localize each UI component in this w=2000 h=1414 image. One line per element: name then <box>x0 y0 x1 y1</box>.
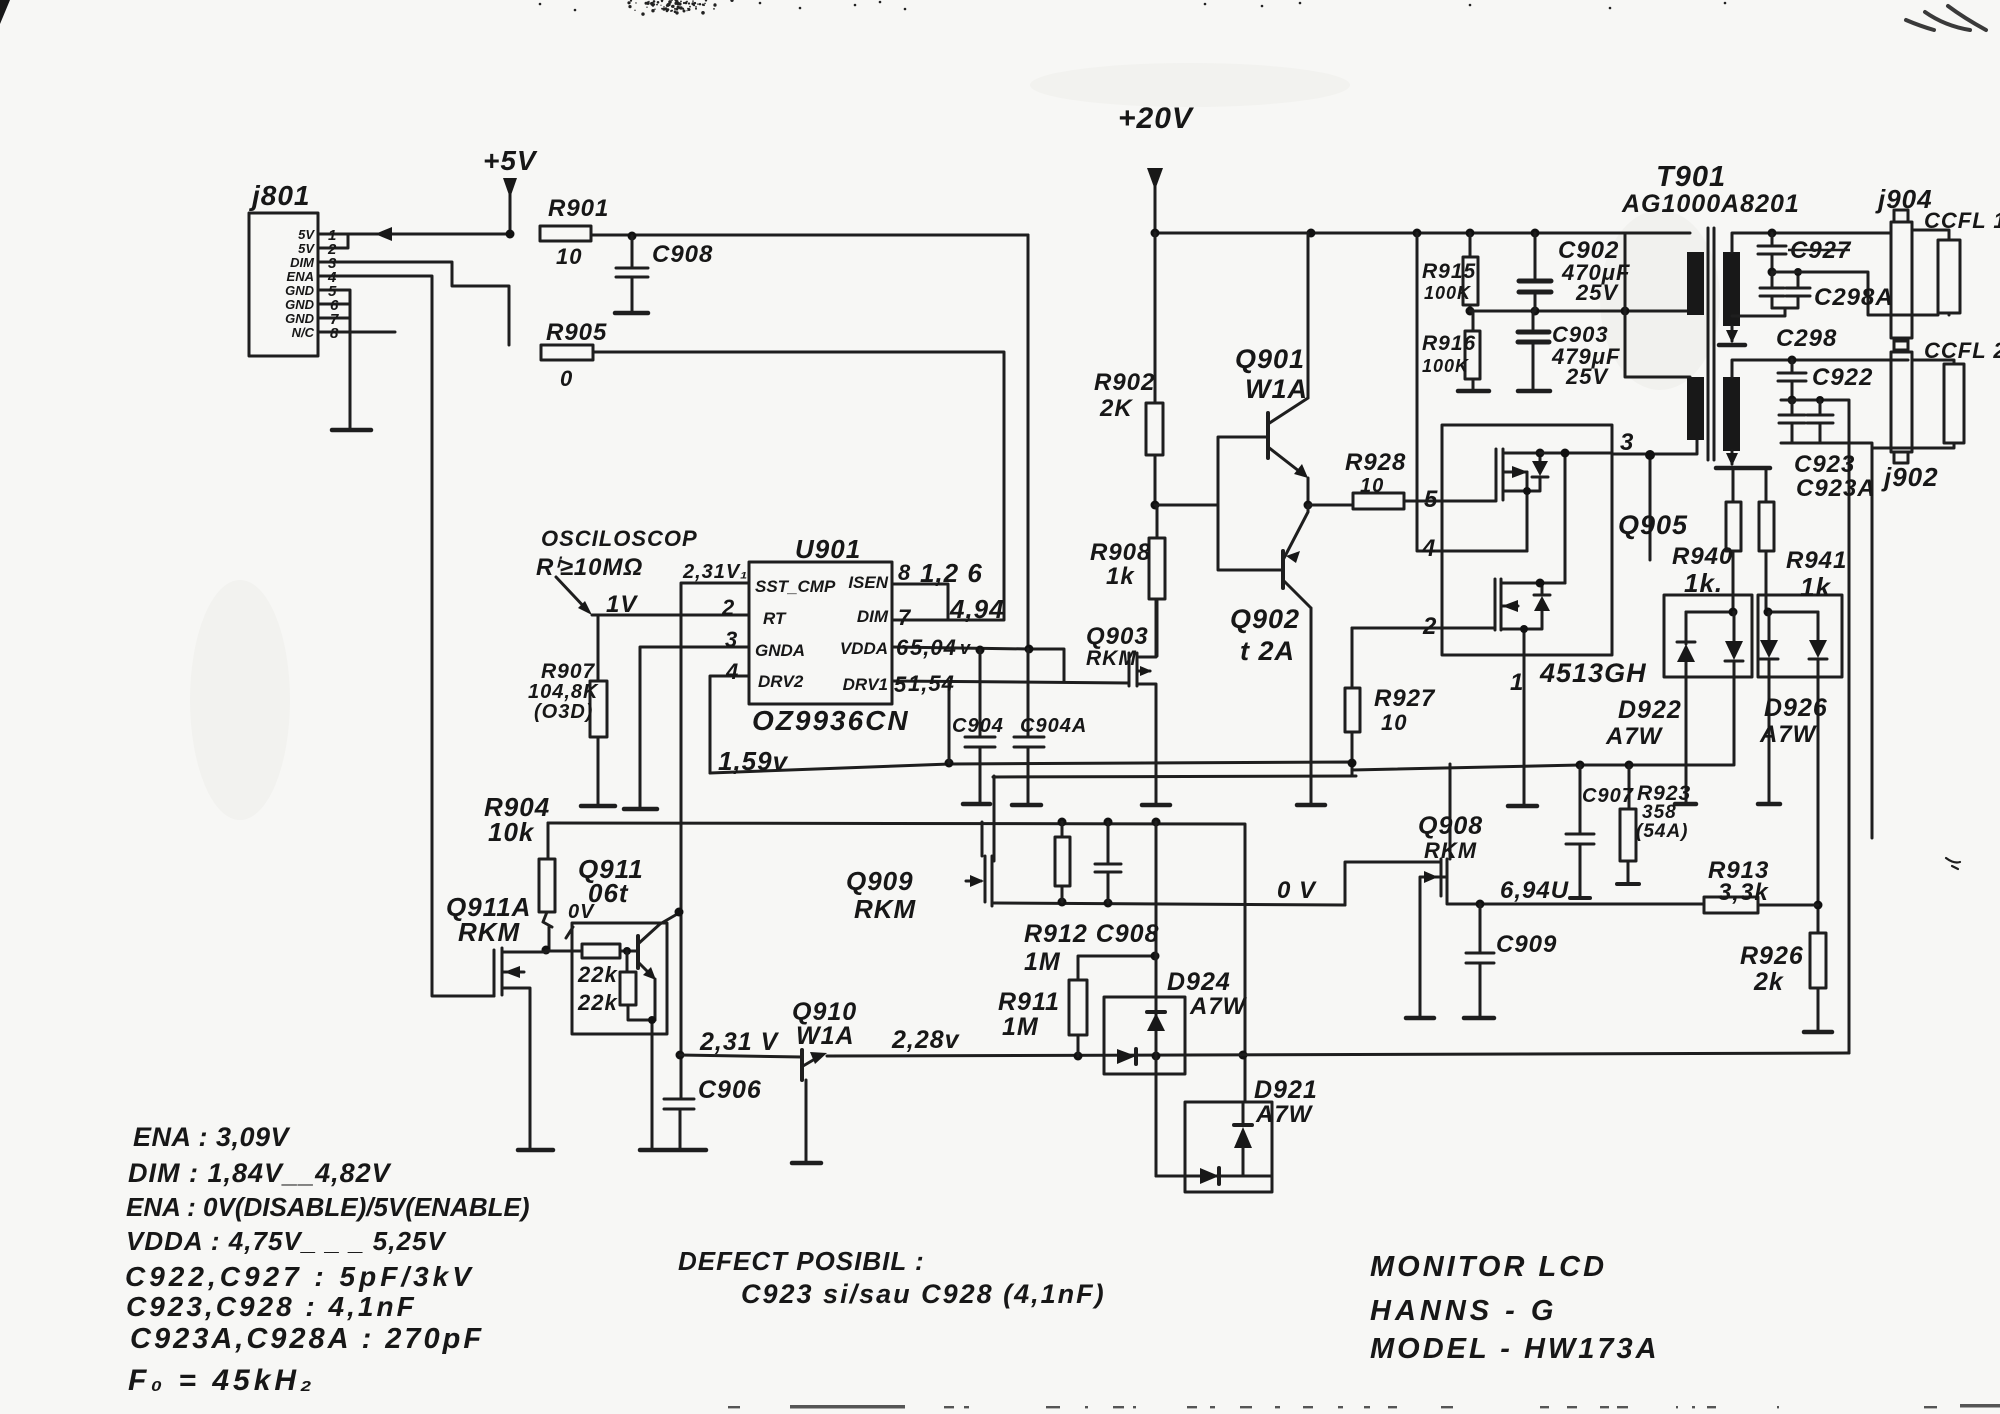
wire primary left link <box>1625 233 1690 377</box>
svg-text:ENA: ENA <box>287 269 314 284</box>
ground pin1 <box>1508 804 1537 809</box>
svg-text:D924: D924 <box>1167 968 1231 996</box>
wire 0V net <box>995 903 1345 905</box>
diode pack D926 <box>1758 595 1842 677</box>
ground J801 <box>332 428 371 433</box>
capacitor C928A <box>1732 272 1810 316</box>
svg-text:RKM: RKM <box>854 894 917 924</box>
node Q905 pin numbers <box>1421 429 1634 696</box>
scan artifact right edge marks <box>1946 858 1960 869</box>
resistor R908 <box>1156 505 1159 538</box>
wire pin3 to transformer <box>1612 440 1697 560</box>
wire centre tap net <box>1470 310 1688 313</box>
ground Q902 <box>1297 803 1325 808</box>
node oscilloscope arrow <box>556 577 588 611</box>
node +5V junction <box>506 230 515 239</box>
svg-text:5,04: 5,04 <box>910 635 957 660</box>
transistor Q905a upper MOSFET <box>1496 449 1540 551</box>
wire R905 to U901 pin7 <box>593 352 1004 620</box>
wire base link <box>1155 437 1283 570</box>
svg-text:1k: 1k <box>1800 572 1831 602</box>
svg-text:104,8K: 104,8K <box>528 681 599 703</box>
wire DRV2 pin4 <box>710 676 749 773</box>
svg-text:R927: R927 <box>1374 685 1436 712</box>
svg-text:25V: 25V <box>1565 364 1609 389</box>
resistor R940 <box>1732 468 1735 502</box>
resistor R902 <box>1154 233 1157 403</box>
transformer T901 secondary 2 <box>1723 377 1740 451</box>
svg-text:1k.: 1k. <box>1684 568 1723 598</box>
svg-text:DEFECT POSIBIL :: DEFECT POSIBIL : <box>678 1246 925 1276</box>
svg-text:10: 10 <box>1381 710 1407 735</box>
svg-text:1,59v: 1,59v <box>718 746 789 776</box>
scan artifact bottom dotted line <box>728 1404 2000 1409</box>
node DRV junctions <box>945 759 954 768</box>
svg-text:Q901: Q901 <box>1235 344 1305 374</box>
svg-text:2: 2 <box>721 595 735 620</box>
svg-text:SST_CMP: SST_CMP <box>755 577 836 596</box>
transistor Q911A <box>494 948 546 1148</box>
lamp CCFL1 <box>1938 240 1960 313</box>
resistor R904 <box>547 823 550 859</box>
svg-text:C906: C906 <box>698 1076 762 1104</box>
capacitor C902 <box>1534 233 1537 278</box>
svg-text:RKM: RKM <box>458 917 521 947</box>
ground C908 <box>615 311 648 316</box>
svg-text:C923: C923 <box>1794 451 1855 478</box>
wire ENA pin4 <box>318 276 494 996</box>
svg-text:C298: C298 <box>1776 325 1837 352</box>
svg-text:j801: j801 <box>248 180 311 211</box>
svg-text:DRV2: DRV2 <box>758 672 804 691</box>
transistor Q901 <box>1266 413 1270 458</box>
wire lamp2 return <box>1781 443 1872 838</box>
svg-text:MONITOR LCD: MONITOR LCD <box>1370 1251 1607 1283</box>
diode pack D922 <box>1664 595 1752 677</box>
transistor Q905b lower MOSFET <box>1495 579 1540 655</box>
svg-text:3: 3 <box>1620 429 1634 456</box>
svg-text:C922: C922 <box>1812 364 1873 391</box>
wire 2,31V to Q910 <box>680 1055 802 1057</box>
svg-text:D922: D922 <box>1618 696 1682 724</box>
resistor R915 <box>1469 233 1472 257</box>
capacitor C908b <box>1095 822 1121 903</box>
svg-text:D926: D926 <box>1764 694 1828 722</box>
wire D921 input <box>1156 1175 1272 1178</box>
svg-text:2K: 2K <box>1099 395 1133 422</box>
wire pin1 to ground <box>1523 655 1526 805</box>
wire drain node to pin3 <box>1540 453 1612 583</box>
scan artifact faint blobs <box>1030 63 1350 107</box>
ground Q903 <box>1142 803 1170 808</box>
resistor R916 <box>1472 311 1475 331</box>
svg-text:0: 0 <box>560 366 573 391</box>
svg-text:2,31 V: 2,31 V <box>699 1028 780 1056</box>
capacitor C923 <box>1779 400 1805 443</box>
svg-text:R905: R905 <box>546 319 607 346</box>
svg-text:R911: R911 <box>998 988 1060 1016</box>
svg-text:1k: 1k <box>1106 563 1135 590</box>
svg-text:1,54: 1,54 <box>908 671 955 696</box>
resistor 22k horizontal <box>546 950 582 953</box>
svg-text:R912 C908: R912 C908 <box>1024 920 1159 948</box>
svg-text:22k: 22k <box>577 962 618 987</box>
svg-text:2,28v: 2,28v <box>891 1026 961 1054</box>
node R927 bus <box>1348 759 1357 768</box>
transformer T901 primary 1 <box>1687 252 1704 315</box>
wire to R928 <box>1308 504 1353 507</box>
wire VDDA pin6 <box>892 647 1064 682</box>
svg-text:RKM: RKM <box>1424 838 1477 863</box>
svg-text:1: 1 <box>1510 669 1523 696</box>
wire primary top lead <box>1625 232 1690 235</box>
transistor Q908 <box>1345 764 1480 1018</box>
scan artifact top speckles <box>539 0 1727 16</box>
node Q911 collector junction <box>675 908 684 917</box>
diode D922 left <box>1677 612 1695 802</box>
node arrow into J801 <box>375 227 392 241</box>
svg-text:R940: R940 <box>1672 543 1733 570</box>
svg-text:7: 7 <box>898 605 912 630</box>
wire DRV net lower <box>993 776 1356 777</box>
node U901 pin numbers <box>721 560 912 697</box>
transistor Q910 <box>800 1050 804 1080</box>
wire pin2 <box>1352 627 1495 630</box>
svg-text:5: 5 <box>894 672 907 697</box>
svg-text:6,94U: 6,94U <box>1500 877 1569 904</box>
svg-text:HANNS - G: HANNS - G <box>1370 1295 1557 1327</box>
svg-text:CCFL 1: CCFL 1 <box>1924 208 2000 233</box>
svg-text:DIM : 1,84V__4,82V: DIM : 1,84V__4,82V <box>128 1158 392 1188</box>
svg-text:5: 5 <box>1424 486 1438 513</box>
transistor Q902 <box>1281 551 1285 588</box>
svg-text:DIM: DIM <box>290 255 315 270</box>
svg-text:R916: R916 <box>1422 332 1476 355</box>
svg-text:ENA : 0V(DISABLE)/5V(ENABLE): ENA : 0V(DISABLE)/5V(ENABLE) <box>126 1192 530 1222</box>
capacitor C907 <box>1566 765 1594 896</box>
capacitor C928 <box>1760 272 1784 308</box>
svg-text:100K: 100K <box>1422 356 1470 376</box>
svg-text:CCFL 2: CCFL 2 <box>1924 338 2000 363</box>
scan artifact top-right smudge <box>1906 6 1986 30</box>
svg-text:AG1000A8201: AG1000A8201 <box>1621 190 1800 218</box>
wire 5V to +5V rail <box>348 233 510 236</box>
svg-text:RKM: RKM <box>1086 647 1137 670</box>
svg-text:GNDA: GNDA <box>755 641 805 660</box>
svg-text:358: 358 <box>1642 802 1677 823</box>
resistor R905 <box>541 345 593 360</box>
wire lamp1 top <box>1912 230 1949 240</box>
svg-text:T901: T901 <box>1656 161 1726 193</box>
svg-text:1M: 1M <box>1002 1013 1039 1041</box>
svg-text:0 V: 0 V <box>1277 877 1317 904</box>
wire 6,94V net <box>1480 903 1704 906</box>
svg-text:100K: 100K <box>1424 283 1472 303</box>
svg-text:4513GH: 4513GH <box>1539 658 1647 688</box>
wire lamp1 return <box>1772 272 1938 315</box>
module Q905 4513GH box <box>1442 425 1612 655</box>
svg-text:C907: C907 <box>1582 785 1634 807</box>
diode D921 horizontal <box>1200 1168 1219 1184</box>
wire R901 to VDDA <box>1027 235 1030 649</box>
resistor 22k vertical <box>626 951 629 972</box>
diode D924 horizontal <box>1117 1049 1136 1064</box>
node J801 pin numbers <box>327 227 339 342</box>
module Q911 block <box>572 923 667 1034</box>
svg-text:8: 8 <box>898 560 911 585</box>
svg-text:A7W: A7W <box>1255 1101 1314 1128</box>
svg-text:C298A: C298A <box>1814 284 1894 311</box>
wire D924 column <box>1155 822 1158 1176</box>
IC U901 <box>749 562 892 704</box>
node C908 top <box>628 232 637 241</box>
capacitor C922 <box>1778 360 1806 400</box>
svg-text:A7W: A7W <box>1189 993 1248 1020</box>
svg-text:22k: 22k <box>577 990 618 1015</box>
capacitor C909 <box>1466 904 1494 1018</box>
svg-text:R928: R928 <box>1345 449 1406 476</box>
wire pin4 supply <box>1417 233 1527 551</box>
wire 1,59V net <box>710 762 1733 775</box>
ground secondary2 <box>1716 466 1770 471</box>
ground C906 <box>640 1148 706 1153</box>
diode D921 vertical <box>1234 1123 1252 1127</box>
diode Q905a body <box>1527 453 1548 491</box>
svg-text:C904: C904 <box>952 715 1004 737</box>
svg-text:2k: 2k <box>1753 968 1784 996</box>
svg-text:v: v <box>960 638 971 658</box>
resistor R923 <box>1628 765 1631 809</box>
svg-text:(54A): (54A) <box>1636 821 1689 842</box>
diode pack D924 <box>1104 997 1185 1074</box>
resistor R912 <box>1061 822 1064 837</box>
svg-text:1V: 1V <box>606 591 638 618</box>
wire DRV1 pin5 <box>892 681 1129 763</box>
svg-text:+5V: +5V <box>483 145 538 176</box>
svg-text:MODEL - HW173A: MODEL - HW173A <box>1370 1333 1660 1365</box>
transistor Q903 <box>1129 599 1156 805</box>
svg-text:GND: GND <box>285 283 315 298</box>
node R902 bottom <box>1151 501 1160 510</box>
svg-text:6: 6 <box>896 635 909 660</box>
svg-text:1,2 6: 1,2 6 <box>920 558 983 588</box>
svg-text:W1A: W1A <box>796 1022 855 1050</box>
wire lamp2 top <box>1912 360 1954 364</box>
svg-text:(O3D): (O3D) <box>534 701 593 723</box>
svg-text:0V: 0V <box>568 901 595 923</box>
wire +20V bus <box>1155 232 1625 235</box>
diode D922 right <box>1725 612 1743 765</box>
resistor R901 <box>540 226 591 241</box>
svg-text:R901: R901 <box>548 195 609 222</box>
ground Q911A <box>518 1148 553 1153</box>
svg-text:ISEN: ISEN <box>848 573 888 592</box>
node 2,31V junction <box>676 1051 685 1060</box>
wire GND pins 5-7 <box>318 290 350 428</box>
wire secondary1 top <box>1732 233 1891 252</box>
svg-text:R907: R907 <box>541 660 596 683</box>
svg-text:3: 3 <box>725 627 737 652</box>
resistor R913 <box>1704 897 1758 913</box>
capacitor C923A <box>1807 400 1833 443</box>
svg-text:Q909: Q909 <box>846 866 914 896</box>
svg-text:Rⁱ≥10MΩ: Rⁱ≥10MΩ <box>536 554 643 581</box>
svg-text:Q902: Q902 <box>1230 604 1300 634</box>
svg-text:C908: C908 <box>652 241 713 268</box>
svg-text:F₀ = 45kH₂: F₀ = 45kH₂ <box>128 1364 316 1397</box>
connector J904 <box>1891 222 1912 338</box>
wire DIM pin3 <box>318 262 509 345</box>
node U901 pin names <box>755 573 889 694</box>
svg-text:j902: j902 <box>1881 462 1939 492</box>
diode pack D921 <box>1185 1102 1272 1192</box>
resistor R926 <box>1810 933 1826 988</box>
capacitor C904 <box>965 650 995 804</box>
svg-text:RT: RT <box>763 609 787 628</box>
wire lamp2 bottom <box>1872 443 1954 448</box>
lamp CCFL2 <box>1944 364 1964 443</box>
capacitor C903 <box>1532 311 1535 329</box>
ground C903 <box>1518 389 1550 394</box>
svg-text:C923,C928 : 4,1nF: C923,C928 : 4,1nF <box>126 1291 417 1322</box>
node VDDA junctions <box>976 646 985 655</box>
svg-text:R915: R915 <box>1422 260 1476 283</box>
wire SST_CMP <box>681 583 749 1099</box>
ground GNDA <box>624 807 657 812</box>
svg-text:C923 si/sau C928 (4,1nF): C923 si/sau C928 (4,1nF) <box>741 1279 1106 1309</box>
svg-text:R941: R941 <box>1786 547 1847 574</box>
svg-text:Q903: Q903 <box>1086 623 1149 650</box>
svg-text:A7W: A7W <box>1759 721 1818 748</box>
resistor R927 <box>1351 628 1354 688</box>
svg-text:1M: 1M <box>1024 948 1061 976</box>
ground C904A <box>1012 803 1041 808</box>
power +5V <box>509 180 512 234</box>
svg-text:10k: 10k <box>488 817 535 847</box>
svg-text:C923A,C928A : 270pF: C923A,C928A : 270pF <box>130 1323 484 1355</box>
svg-text:+20V: +20V <box>1118 102 1195 135</box>
svg-text:C922,C927 : 5pF/3kV: C922,C927 : 5pF/3kV <box>125 1261 475 1292</box>
svg-text:C909: C909 <box>1496 931 1557 958</box>
wire 2,28V net bottom bus <box>827 1053 1849 1056</box>
svg-text:OZ9936CN: OZ9936CN <box>752 705 910 736</box>
svg-text:GND: GND <box>285 311 315 326</box>
svg-text:VDDA : 4,75V_ _ _ 5,25V: VDDA : 4,75V_ _ _ 5,25V <box>126 1226 447 1256</box>
svg-text:4: 4 <box>725 659 738 684</box>
transformer T901 secondary 1 <box>1723 252 1740 326</box>
wire secondary2 bottom return <box>1731 451 1734 464</box>
svg-text:8: 8 <box>330 325 339 342</box>
scan artifact top-left corner <box>0 0 10 24</box>
svg-text:5V: 5V <box>298 227 315 242</box>
svg-text:U901: U901 <box>795 534 861 564</box>
svg-text:5V: 5V <box>298 241 315 256</box>
wire R901 output <box>591 234 1028 237</box>
diode Q905b body <box>1524 583 1565 629</box>
wire lamp1 bottom <box>1948 313 1951 315</box>
svg-text:25V: 25V <box>1575 280 1619 305</box>
diode D926 left <box>1760 612 1778 802</box>
svg-text:Q908: Q908 <box>1418 812 1483 840</box>
svg-text:10: 10 <box>556 244 582 269</box>
svg-text:DIM: DIM <box>857 607 889 626</box>
svg-text:4,94: 4,94 <box>949 594 1005 624</box>
svg-text:R902: R902 <box>1094 369 1155 396</box>
connector J801 <box>249 213 318 356</box>
svg-text:10: 10 <box>1360 475 1384 497</box>
ground R926 <box>1804 1030 1832 1035</box>
svg-text:Q905: Q905 <box>1618 510 1688 540</box>
svg-text:D921: D921 <box>1254 1076 1318 1104</box>
ground R916 <box>1458 389 1489 394</box>
svg-text:A7W: A7W <box>1605 723 1664 750</box>
svg-text:W1A: W1A <box>1245 374 1308 404</box>
capacitor C904A <box>1014 649 1044 805</box>
node bus junctions <box>1151 229 1160 238</box>
svg-text:R908: R908 <box>1090 539 1151 566</box>
ground C904 <box>963 802 990 807</box>
svg-text:2: 2 <box>1422 613 1437 640</box>
wire secondary1 bottom return <box>1731 326 1734 341</box>
svg-text:4: 4 <box>1421 535 1435 562</box>
wire U901 pin8 ISEN <box>892 584 948 620</box>
capacitor C906 <box>664 1099 694 1148</box>
diode D926 right <box>1809 612 1827 933</box>
svg-text:DRV1: DRV1 <box>843 675 888 694</box>
ground Q908 <box>1406 1016 1434 1021</box>
wire R904 bus <box>548 823 1245 1102</box>
svg-text:VDDA: VDDA <box>840 639 888 658</box>
resistor R928 <box>1353 493 1404 509</box>
wire RT pin2 <box>592 614 749 617</box>
capacitor C927 <box>1758 233 1786 272</box>
svg-text:OSCILOSCOP: OSCILOSCOP <box>541 526 698 551</box>
connector J902 <box>1891 352 1912 452</box>
node emitter junction <box>1304 501 1313 510</box>
node R915 bottom <box>1466 307 1475 316</box>
wire pins 1-2 bracket <box>318 234 348 248</box>
resistor R911 <box>1078 956 1156 980</box>
transistor Q911 <box>636 936 640 968</box>
svg-text:GND: GND <box>285 297 315 312</box>
capacitor C908 <box>616 236 648 313</box>
wire N/C pin8 <box>318 331 395 334</box>
transformer T901 core <box>1708 228 1714 460</box>
transformer T901 primary 2 <box>1687 377 1704 440</box>
svg-text:R926: R926 <box>1740 942 1804 970</box>
power +20V <box>1154 170 1157 233</box>
node J801 pin names <box>285 227 315 340</box>
resistor R941 <box>1765 468 1768 502</box>
diode D924 vertical <box>1147 1010 1165 1014</box>
svg-text:2,31V₁: 2,31V₁ <box>682 561 748 583</box>
wire secondary2 top <box>1732 360 1908 377</box>
ground secondary1 <box>1719 343 1745 348</box>
wire R928 to pin5 <box>1404 500 1496 503</box>
wire C922 bottom link <box>1781 400 1849 1053</box>
resistor R907 <box>597 615 600 681</box>
ground C909 <box>1464 1016 1494 1021</box>
ground Q910 <box>792 1161 821 1166</box>
svg-text:t 2A: t 2A <box>1240 636 1295 666</box>
svg-text:ENA : 3,09V: ENA : 3,09V <box>133 1122 291 1152</box>
ground R907 <box>581 804 615 809</box>
svg-text:C923A: C923A <box>1796 475 1876 502</box>
svg-text:C904A: C904A <box>1020 715 1087 737</box>
wire GNDA pin3 <box>640 647 749 809</box>
svg-text:3,3k: 3,3k <box>1718 879 1769 906</box>
transistor Q909 <box>966 776 996 906</box>
